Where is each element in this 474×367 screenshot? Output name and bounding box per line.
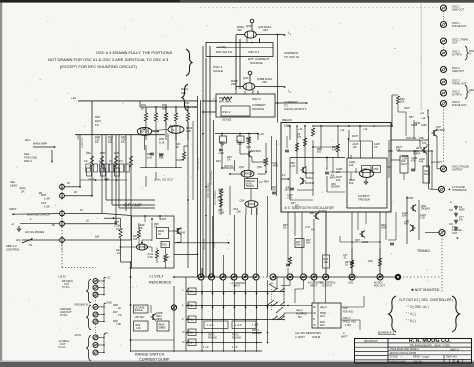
connector circle y352.5	[93, 350, 98, 355]
grid col x223.5	[223, 280, 225, 343]
resistor right mirror	[182, 152, 185, 160]
svg-text:R6A: R6A	[86, 152, 91, 155]
svg-text:FDK ADJ: FDK ADJ	[343, 311, 354, 314]
brace left cutout	[389, 296, 397, 332]
svg-text:2.2K: 2.2K	[148, 255, 154, 259]
wire into osc2 box 2	[203, 111, 216, 113]
schmitt feed wire 2	[371, 141, 373, 158]
svg-text:R12: R12	[424, 173, 429, 176]
drop wire 256	[256, 208, 258, 277]
dual transistor MA77	[137, 127, 151, 135]
grid tick	[223, 292, 225, 295]
svg-text:RANGE: RANGE	[252, 332, 261, 335]
dashed group link 2	[95, 325, 97, 335]
ref inner wire	[151, 222, 153, 241]
svg-text:GROUND IN: GROUND IN	[74, 304, 89, 307]
svg-text:R64: R64	[264, 181, 269, 184]
mirror branch	[155, 107, 157, 113]
left brace osc2 note	[182, 84, 188, 111]
svg-text:4.7K: 4.7K	[305, 226, 310, 229]
svg-text:MFL 46FL: MFL 46FL	[219, 100, 232, 104]
title block main rows	[388, 342, 472, 344]
wire second vertical	[239, 39, 241, 89]
connector brace	[87, 305, 92, 330]
svg-text:10K: 10K	[237, 210, 242, 213]
ground sym	[17, 226, 21, 231]
svg-text:R35: R35	[159, 137, 164, 141]
svg-text:-10 IN: -10 IN	[74, 334, 81, 337]
svg-text:SOURCE: SOURCE	[250, 61, 263, 65]
svg-text:FDK OUT: FDK OUT	[374, 285, 385, 288]
svg-text:324: 324	[263, 28, 268, 32]
svg-text:RANGE: RANGE	[208, 336, 217, 339]
svg-text:MAIN AMP: MAIN AMP	[33, 142, 47, 146]
connector circle y314.5	[93, 312, 98, 317]
svg-text:1K: 1K	[117, 252, 120, 255]
grid row end dot	[283, 319, 285, 321]
oval MA77 down	[144, 135, 146, 150]
box wire v0	[289, 126, 291, 140]
svg-text:R12B: R12B	[411, 124, 418, 127]
svg-text:SAW OUT: SAW OUT	[452, 69, 464, 73]
feedback loop box osc1	[206, 43, 273, 57]
svg-text:10K: 10K	[400, 100, 405, 103]
svg-text:Q24: Q24	[246, 146, 251, 149]
svg-text:39K: 39K	[220, 143, 225, 146]
svg-text:OSC BUS: OSC BUS	[203, 238, 206, 250]
box wire v4	[289, 158, 291, 201]
wire into pot4	[20, 223, 59, 225]
arrow into box	[281, 178, 289, 180]
svg-text:560: 560	[162, 327, 167, 330]
svg-text:OSC RANGE: OSC RANGE	[207, 183, 210, 198]
grid tick	[201, 292, 203, 295]
svg-text:1%: 1%	[95, 123, 100, 127]
svg-text:+12: +12	[340, 129, 345, 132]
row jack x245	[242, 274, 248, 280]
svg-text:K2A: K2A	[24, 152, 29, 156]
connector brace	[87, 279, 92, 303]
row jack x380	[377, 274, 383, 280]
switch lever 4	[278, 314, 285, 320]
jack #1 triang out	[439, 230, 445, 236]
mirror wire down4	[167, 134, 169, 151]
wire to top node osc1	[251, 23, 253, 31]
switch contact	[273, 289, 277, 292]
svg-text:" " 4 ( ): " " 4 ( )	[406, 312, 416, 316]
grid res R30	[188, 288, 196, 295]
svg-text:R13?: R13?	[352, 135, 359, 138]
mirror branch	[145, 107, 147, 113]
dashed pot drop	[61, 244, 63, 250]
mirror branch	[187, 107, 189, 113]
wire +12 to subbox	[348, 139, 350, 158]
svg-text:10K: 10K	[295, 204, 300, 207]
svg-text:2N40?: 2N40?	[248, 203, 256, 206]
transistor #20	[314, 213, 320, 220]
scan edge: bottom gray bar	[0, 362, 474, 367]
svg-text:430K: 430K	[273, 164, 279, 167]
bus wire B	[200, 100, 202, 277]
svg-text:(EXCEPT FOR RFC SHUNTING C: (EXCEPT FOR RFC SHUNTING CIRCUIT)	[60, 64, 137, 69]
svg-text:1K: 1K	[86, 220, 89, 223]
svg-text:1K: 1K	[345, 263, 348, 266]
wire v mid	[234, 160, 236, 171]
svg-text:dwg 2: dwg 2	[320, 306, 327, 309]
wire to r28 node	[104, 217, 114, 219]
pulse wire extra	[413, 120, 415, 138]
triang wire v1	[406, 196, 408, 244]
svg-text:47K: 47K	[419, 160, 424, 163]
resistor R40 box	[220, 136, 227, 143]
diode chain tie2	[449, 223, 453, 225]
revision row line	[355, 342, 389, 344]
jack OSC 2 S+TRI A	[441, 90, 447, 96]
svg-text:OUTPUT: OUTPUT	[452, 168, 463, 172]
dashed jack link 2	[443, 44, 445, 50]
svg-text:✱ NOT SHUNTED: ✱ NOT SHUNTED	[411, 288, 440, 292]
reference cluster outline	[132, 216, 175, 268]
box octave scale	[134, 305, 149, 313]
svg-text:R28: R28	[114, 220, 119, 224]
brace jack group 2	[465, 85, 469, 99]
grid row end dot	[283, 291, 285, 293]
svg-text:2K: 2K	[74, 191, 77, 194]
svg-text:# 2: # 2	[282, 173, 286, 177]
resistor R46	[219, 199, 222, 207]
svg-text:IBEAM: IBEAM	[282, 118, 292, 122]
svg-text:MAIN KBD CIRCUIT: MAIN KBD CIRCUIT	[27, 213, 51, 217]
svg-text:REW: REW	[156, 318, 162, 321]
precision dual transistor box	[245, 179, 258, 189]
wire v below box 6	[351, 212, 353, 277]
array tie bus	[80, 179, 127, 181]
svg-text:1 5 4 1: 1 5 4 1	[448, 359, 464, 365]
transistor in box 2	[300, 178, 306, 185]
svg-text:R42 1.2K: R42 1.2K	[186, 105, 197, 109]
mirror rail tie	[139, 101, 141, 107]
r28 vertical top	[120, 218, 122, 228]
switch wire up1	[276, 277, 278, 289]
svg-text:WATT: WATT	[341, 336, 348, 339]
title block revisions column	[387, 339, 389, 364]
grid tick	[267, 292, 269, 295]
mid block wire f	[276, 140, 278, 196]
svg-text:+12: +12	[298, 128, 303, 131]
mid block wire a	[220, 196, 222, 215]
svg-text:2N3566: 2N3566	[169, 124, 179, 128]
svg-text:PNPN: PNPN	[413, 152, 420, 155]
box 1.2K	[134, 321, 149, 331]
pin box divider	[317, 303, 319, 328]
wire box to pulse	[391, 139, 420, 141]
grid tick	[212, 292, 214, 295]
small wire left box	[286, 136, 288, 148]
wire v below box 5	[325, 212, 327, 277]
dwg no divider	[443, 355, 445, 363]
svg-text:OSC # 3 DRAWN FULLY. THE P: OSC # 3 DRAWN FULLY. THE PORTIONS	[96, 50, 173, 55]
box wire v2b	[320, 126, 322, 150]
svg-text:RANGE: RANGE	[232, 336, 241, 339]
octave wire	[150, 305, 152, 313]
box zigzag extra	[303, 138, 306, 146]
svg-text:R6B: R6B	[100, 152, 105, 155]
svg-text:SCHMITT: SCHMITT	[358, 194, 370, 198]
svg-text:R90 423 1%: R90 423 1%	[216, 50, 233, 54]
wire out oval right	[258, 173, 267, 175]
connector stub	[98, 352, 104, 354]
long bus wire from osc1 box	[205, 58, 207, 277]
schmitt small box 1	[362, 166, 372, 173]
dashed row extension	[403, 276, 440, 278]
pot P5	[60, 236, 65, 244]
connector circle y281	[93, 279, 98, 284]
wire into pot3	[12, 213, 59, 216]
grid col x234.5	[234, 280, 236, 343]
pulse up wire	[391, 95, 393, 126]
wire 314 down	[313, 280, 315, 303]
diode chain	[455, 205, 457, 210]
pot P4	[60, 220, 65, 228]
stair wire 2	[65, 195, 92, 197]
svg-text:ShIFT: ShIFT	[9, 207, 17, 211]
svg-text:2.2K: 2.2K	[186, 129, 192, 133]
svg-text:10K: 10K	[349, 164, 354, 167]
row jack x303.5	[301, 274, 307, 280]
array trim box	[86, 164, 90, 172]
svg-text:1K: 1K	[141, 107, 145, 111]
schmitt in wire	[355, 168, 357, 173]
svg-text:PULSE OUT: PULSE OUT	[452, 103, 467, 107]
jack OSC2 pulse output	[441, 166, 447, 172]
svg-text:OSCILLATOR # 2: OSCILLATOR # 2	[284, 107, 307, 111]
svg-text:OUT: OUT	[452, 41, 458, 45]
svg-text:MFD: MFD	[330, 176, 336, 179]
transistor in box 1	[301, 167, 307, 174]
svg-text:Mun: Mun	[25, 138, 31, 142]
wire r28 to ref cluster	[121, 246, 132, 248]
switch lever 2	[267, 300, 274, 306]
svg-text:TRIAN. OUT: TRIAN. OUT	[452, 82, 467, 86]
grid tick	[256, 292, 258, 295]
svg-text:>1 VOLT: >1 VOLT	[149, 275, 164, 279]
drop wire 245	[245, 215, 247, 277]
svg-text:2N35: 2N35	[416, 147, 423, 150]
grid drop tick	[256, 343, 258, 352]
svg-text:2N3566: 2N3566	[436, 129, 445, 132]
box h wire 2	[297, 189, 313, 191]
osc1 oval drop	[246, 38, 248, 43]
svg-text:-2B: -2B	[38, 192, 42, 195]
svg-text:1K: 1K	[158, 233, 161, 236]
mirror bottom tie	[140, 167, 182, 169]
array wire down	[115, 135, 117, 224]
svg-text:500: 500	[95, 236, 100, 239]
svg-text:OSC # 1: OSC # 1	[248, 50, 260, 54]
connector circle y337.4	[93, 335, 98, 340]
svg-text:AWG 2: AWG 2	[450, 347, 459, 351]
connector circle y287.6	[93, 285, 98, 290]
osc2 oval drop2	[252, 90, 254, 94]
connector circle y345	[93, 343, 98, 348]
svg-text:624: 624	[402, 214, 407, 217]
+12 rail	[78, 100, 198, 102]
svg-text:S+TRI A: S+TRI A	[452, 53, 462, 57]
schmitt feed wire 1	[359, 141, 361, 158]
array trim box	[87, 168, 92, 176]
zigzag 290	[288, 257, 291, 265]
connector arrow	[104, 277, 106, 279]
svg-text:TO P.L.: TO P.L.	[62, 286, 71, 289]
array wire down	[105, 135, 107, 200]
svg-text:10K: 10K	[349, 182, 354, 185]
wire grid to pinbox 2	[284, 312, 312, 314]
connector rail	[103, 278, 105, 295]
svg-text:Q6?: Q6?	[355, 239, 360, 242]
svg-text:R44: R44	[216, 160, 221, 163]
wire osc1 left	[236, 34, 245, 36]
svg-text:1.2K: 1.2K	[290, 164, 296, 168]
grid row y342.5	[186, 342, 262, 344]
svg-text:Q30: Q30	[246, 24, 252, 28]
schmitt trigger oval	[359, 170, 373, 178]
mirror wire down1	[145, 145, 147, 168]
jack OSC 1 TRIAN OUT	[441, 38, 447, 44]
scan edge: top black bar	[0, 0, 474, 3]
switch wire up2	[283, 277, 285, 303]
jack OSC 2 SAW OUT	[441, 67, 447, 73]
output oval	[137, 244, 148, 250]
pulse transistor Q	[422, 147, 428, 154]
array zigzag resistor	[129, 156, 132, 167]
wire v below box 4	[313, 219, 315, 277]
pulse wire right	[431, 150, 433, 190]
schmitt out wire	[366, 178, 368, 180]
grid drop tick	[245, 343, 247, 352]
row jack x290	[287, 274, 293, 280]
stair wire 4	[65, 223, 116, 225]
wire v below box 7	[379, 212, 381, 277]
wire v below box 3	[301, 212, 303, 274]
row jack x201	[198, 274, 204, 280]
grid tick	[234, 292, 236, 295]
svg-text:+10K: +10K	[218, 152, 224, 155]
wire into schmitt subbox	[330, 171, 359, 173]
long bus wire 2	[209, 46, 211, 277]
box wire v2	[304, 126, 306, 166]
wire schmitt to box edge	[387, 166, 391, 168]
wire box to pulse 2	[391, 159, 400, 161]
resistor box R60	[323, 255, 330, 268]
box wire v8	[388, 140, 390, 178]
svg-text:TO A.L.: TO A.L.	[58, 346, 67, 349]
faint dotted top line	[200, 7, 438, 9]
svg-text:1.5M: 1.5M	[345, 324, 351, 327]
wire to jack 2	[429, 188, 439, 190]
svg-text:SCALE: SCALE	[213, 69, 223, 73]
connector arrow	[104, 333, 106, 335]
inner box osc2 scale	[221, 106, 250, 116]
wire rail to R40	[221, 134, 223, 136]
connector stub	[98, 336, 104, 338]
array trim box	[99, 164, 103, 172]
note closing brace	[186, 49, 192, 76]
cap mirror	[150, 153, 154, 155]
svg-text:3.32K: 3.32K	[114, 224, 121, 228]
grid row y305.5	[186, 305, 284, 307]
box 1 of 5 a	[204, 321, 228, 329]
array wire down	[101, 135, 103, 214]
svg-text:INTERFACE: INTERFACE	[452, 188, 467, 192]
pin header box	[312, 303, 341, 328]
rail 2	[140, 106, 198, 108]
tie wire 242	[340, 241, 380, 243]
svg-text:SCALE: SCALE	[222, 118, 231, 122]
svg-text:# 3: # 3	[285, 206, 290, 210]
connector circle y321.5	[93, 319, 98, 324]
bus wire C	[202, 46, 204, 277]
svg-text:PULSE: PULSE	[406, 136, 416, 140]
pulse resistor v	[396, 96, 399, 104]
wire osc2 current out	[275, 102, 307, 104]
resistor under 380	[378, 258, 381, 266]
pulse v 415	[414, 151, 416, 171]
diode chain tie1	[449, 209, 453, 211]
ref wire to Q10	[169, 230, 176, 232]
row jack x223	[220, 274, 226, 280]
dual transistor Q30 osc1	[245, 31, 257, 38]
array trim box	[114, 164, 118, 172]
wire grid to pinbox 1	[284, 305, 312, 307]
connector rail	[103, 303, 105, 321]
wire to schmitt	[327, 191, 345, 193]
grid res R32	[188, 316, 196, 323]
box wire v1	[296, 126, 298, 158]
svg-text:1.2M 1%: 1.2M 1%	[81, 137, 84, 148]
wire into pot5	[22, 239, 59, 241]
mirror branch	[165, 107, 167, 113]
svg-text:R33: R33	[189, 332, 194, 335]
svg-text:.01: .01	[343, 256, 347, 259]
wire emitter tie vertical	[235, 35, 237, 90]
revision row line	[355, 355, 389, 357]
grid row y291.5	[186, 291, 284, 293]
revision row line	[355, 350, 389, 352]
array trim box	[115, 168, 120, 176]
wire below box 358	[357, 212, 359, 230]
arrow triang	[456, 237, 458, 239]
pin box out 2	[341, 319, 360, 321]
dual transistor 2N4058	[241, 170, 254, 177]
grid col x256.5	[256, 280, 258, 343]
box v wire extra	[332, 158, 334, 174]
array wire down	[111, 135, 113, 205]
svg-text:R6?: R6?	[404, 222, 409, 225]
octave transistor	[151, 314, 157, 321]
jack OSC 1 S+TRI A	[441, 50, 447, 56]
drop wire 223	[223, 255, 225, 277]
stair wire 3 cont	[102, 213, 132, 215]
svg-text:226: 226	[231, 82, 236, 86]
inner line osc1 box	[216, 47, 273, 49]
svg-text:TO P.L.: TO P.L.	[60, 314, 69, 317]
svg-text:16HD: 16HD	[10, 184, 17, 188]
triang transistor 1	[411, 205, 417, 212]
wire osc1 out right	[256, 34, 273, 36]
dual transistor bottom	[245, 201, 258, 208]
wire to top node osc2	[249, 75, 251, 83]
osc2 resistor h	[222, 97, 232, 100]
